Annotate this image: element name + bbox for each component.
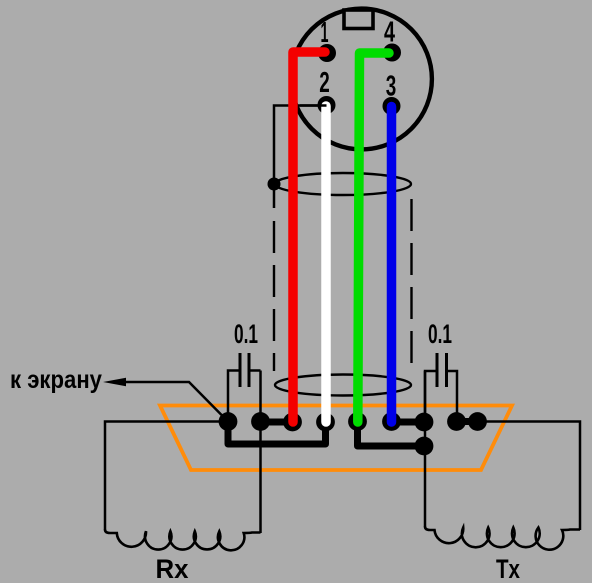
svg-text:3: 3: [386, 71, 397, 103]
svg-text:0.1: 0.1: [234, 319, 258, 349]
svg-text:1: 1: [321, 17, 329, 49]
svg-text:Tx: Tx: [496, 554, 520, 583]
svg-text:0.1: 0.1: [428, 319, 452, 349]
svg-text:Rx: Rx: [156, 554, 189, 583]
svg-text:2: 2: [319, 67, 330, 99]
svg-text:к экрану: к экрану: [10, 366, 102, 394]
svg-text:4: 4: [384, 17, 395, 49]
